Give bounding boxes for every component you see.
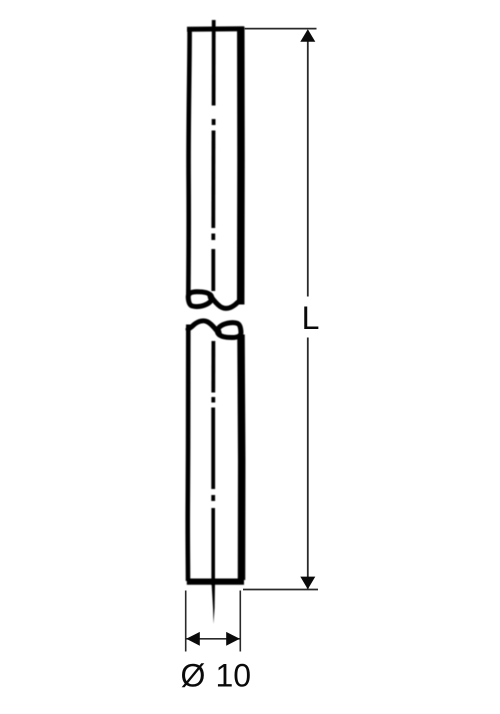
rod lower segment bottom edge	[187, 578, 244, 584]
centerline lower dot 2	[211, 495, 215, 501]
arrowhead right of diameter dimension	[226, 632, 240, 646]
centerline upper dash 2	[211, 131, 215, 229]
svg-text:L: L	[302, 300, 320, 336]
extension line top (from rod top to dimension line)	[245, 28, 317, 30]
svg-text:10: 10	[216, 658, 252, 694]
break symbol lower loop	[217, 323, 241, 338]
centerline lower dot 1	[211, 397, 215, 403]
svg-text:Ø: Ø	[181, 658, 206, 694]
centerline upper dash 1	[212, 20, 216, 106]
rod lower segment left edge	[185, 325, 190, 582]
centerline upper dot 2	[211, 234, 215, 241]
centerline tail below rod	[212, 584, 215, 624]
break symbol lower junction fill	[215, 329, 221, 335]
diameter dimension line	[187, 638, 240, 640]
break symbol upper sweep	[210, 296, 241, 309]
rod lower segment right edge	[237, 335, 245, 581]
break symbol lower sweep	[188, 321, 219, 334]
rod upper segment top edge	[187, 26, 244, 31]
centerline lower dash 1	[211, 341, 215, 393]
centerline lower dash 2	[211, 408, 215, 490]
arrowhead top of L dimension	[300, 29, 315, 42]
break symbol upper loop	[188, 292, 212, 307]
rod upper segment left edge	[188, 27, 189, 297]
arrowhead bottom of L dimension	[300, 577, 315, 590]
centerline lower dash 3	[211, 508, 215, 585]
diameter extension line left	[185, 591, 187, 652]
rod upper segment right edge	[237, 27, 245, 305]
diameter extension line right	[239, 591, 241, 652]
dimension line L upper part	[307, 31, 309, 297]
extension line bottom (from rod base to dimension line)	[243, 589, 318, 591]
dimension line L lower part	[307, 338, 309, 589]
break symbol upper junction fill	[208, 295, 214, 301]
centerline upper dash 3	[211, 249, 215, 291]
arrowhead left of diameter dimension	[186, 632, 200, 646]
centerline upper dot 1	[212, 119, 216, 125]
